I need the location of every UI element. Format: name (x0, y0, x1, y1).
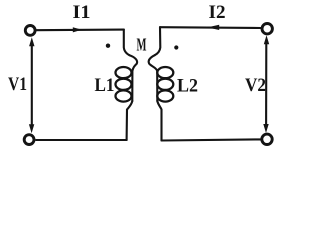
svg-text:M: M (137, 34, 147, 54)
svg-text:I1: I1 (73, 3, 91, 23)
svg-text:L1: L1 (95, 76, 115, 96)
svg-text:L2: L2 (177, 77, 198, 97)
svg-text:I2: I2 (209, 3, 226, 23)
svg-text:V2: V2 (245, 76, 266, 96)
svg-text:V1: V1 (8, 75, 27, 95)
